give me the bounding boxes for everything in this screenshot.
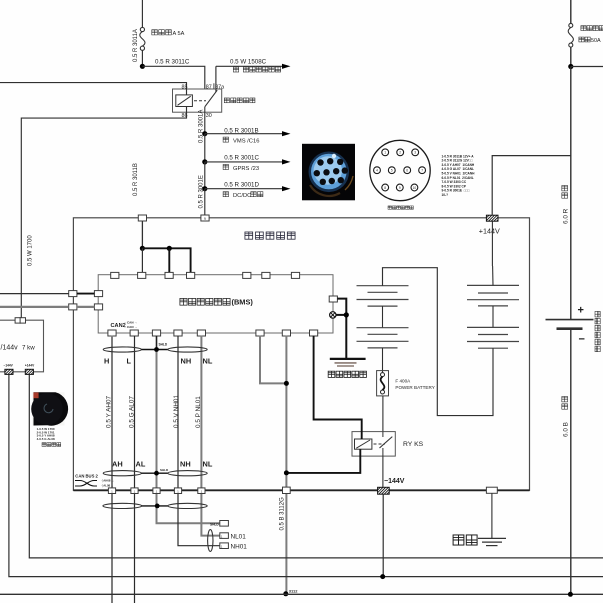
svg-text:CAN BUS 2: CAN BUS 2 — [75, 474, 98, 479]
pair lens vertical — [208, 530, 213, 552]
BMS top pin 6 — [262, 272, 270, 278]
label AH08 arrow — [100, 479, 114, 483]
relay K1 coil — [176, 95, 193, 107]
svg-text:VMS /C16: VMS /C16 — [233, 139, 259, 145]
label NH row1 — [181, 357, 192, 366]
pack wall connector NH — [174, 488, 181, 494]
svg-text:+144V: +144V — [479, 227, 500, 236]
label 3112 — [289, 588, 298, 593]
node 3001D — [202, 186, 207, 191]
wire to car ground — [491, 493, 493, 538]
BMS left pin 307 — [94, 304, 102, 310]
connector NL01 plug — [220, 533, 229, 539]
BMS bottom pin H — [108, 330, 116, 336]
relay K1 dashed link — [194, 100, 206, 102]
twisted pair lens NH-NL row3 — [168, 503, 207, 508]
wire RYKS coil feed — [314, 336, 362, 439]
wire +144V to main battery — [492, 156, 571, 216]
photo pack connector — [302, 144, 355, 201]
pack wall connector SHLD — [153, 488, 160, 494]
svg-text:7: 7 — [421, 169, 423, 173]
pin label 85 — [182, 84, 188, 90]
svg-text:←CAN →: ←CAN → — [124, 325, 137, 329]
svg-text:┤AL08 →: ┤AL08 → — [100, 484, 114, 488]
wire 0.5R3011A from top — [141, 0, 143, 27]
svg-text:┤AH08 →: ┤AH08 → — [100, 479, 114, 483]
svg-text:6: 6 — [406, 169, 408, 173]
svg-text:8: 8 — [384, 186, 386, 190]
label 至 外后视镜保险 — [233, 67, 280, 72]
svg-text:0.5 R 3001C: 0.5 R 3001C — [224, 155, 259, 162]
label NH01 — [231, 544, 248, 551]
pin label 86 — [182, 113, 188, 119]
shield link row3 — [142, 505, 168, 507]
wire 6.0R from top — [570, 0, 572, 23]
arrow 0.5R3001D to DCDC — [205, 186, 291, 191]
wire +144V to right stack top — [491, 221, 494, 285]
label 0.5 R 3011A — [133, 29, 139, 62]
svg-text:0.5 B 3112G: 0.5 B 3112G — [279, 497, 285, 531]
bold branch to BMS pins — [142, 248, 190, 272]
wire RYKS coil return — [286, 449, 360, 473]
connector S2 on pack top — [201, 215, 209, 221]
label charger -144V — [4, 364, 14, 368]
node shell — [344, 312, 349, 317]
svg-text:0.5 R 3001E: 0.5 R 3001E — [198, 175, 204, 208]
connector SHLD plug — [210, 521, 228, 527]
label 保险50A — [579, 37, 601, 44]
battery BT1 常电电池 — [546, 305, 594, 346]
label NL01 — [231, 534, 247, 541]
svg-text:0.5 W 1700: 0.5 W 1700 — [28, 235, 34, 266]
svg-text:+: + — [578, 305, 584, 317]
connector 3112G pack wall — [283, 487, 291, 493]
shield link row1 — [141, 349, 167, 351]
label CAN BUS 2 — [75, 474, 98, 479]
label 0.5 V NH01 — [173, 395, 180, 428]
battery stack right cells — [467, 285, 519, 348]
label POWER BATTERY — [395, 385, 434, 390]
wire 0.5R3001A pin30 down — [204, 112, 206, 134]
label 0.5 R 3011B — [133, 163, 139, 196]
connector wire list — [442, 154, 476, 197]
label NH row2 — [180, 459, 191, 468]
charger output wire plus — [29, 374, 603, 558]
svg-text:POWER BATTERY: POWER BATTERY — [395, 385, 434, 390]
svg-text:0.5 R 3001A: 0.5 R 3001A — [198, 110, 204, 143]
svg-text:L: L — [127, 357, 132, 366]
node J1 — [140, 64, 145, 69]
twisted pair lens NH-NL row2 — [168, 471, 207, 476]
svg-text:0.5 R 3011A: 0.5 R 3011A — [133, 29, 139, 62]
svg-text:AH: AH — [112, 459, 123, 468]
title 动力电池包 — [245, 232, 295, 239]
wire L AL07 — [134, 336, 136, 603]
title 电池管理系统(BMS) — [180, 298, 253, 307]
wire NL NL01 — [201, 336, 219, 536]
twisted pair lens H-L — [103, 347, 141, 352]
label AL — [136, 459, 146, 468]
label 0.5 R 3011C — [155, 58, 190, 65]
charger terminal +144V — [20, 369, 36, 374]
fuse 常电电池保险50A — [568, 23, 573, 47]
relay K1 充电继电器 box — [173, 89, 222, 112]
svg-text:−144V: −144V — [384, 478, 405, 485]
node J5 — [568, 64, 573, 69]
twisted pair lens AH-AL row3 — [103, 503, 142, 508]
node 3112G a — [284, 381, 289, 386]
relay pin86 wire 0.5W1700 — [21, 107, 186, 319]
label 常电电池 — [581, 26, 603, 31]
label 车体 — [453, 535, 477, 545]
pack wall connector AL — [131, 488, 138, 494]
wire 3001 segment — [204, 134, 206, 162]
pack wall connector row 293 — [69, 291, 77, 297]
branch to pin2 — [168, 248, 170, 272]
svg-text:5: 5 — [391, 169, 393, 173]
label 0.5 R 3001E — [198, 175, 204, 208]
svg-text:GPRS /23: GPRS /23 — [233, 166, 259, 172]
svg-text:SHLD: SHLD — [160, 468, 169, 472]
svg-text:7 kw: 7 kw — [22, 344, 35, 351]
label AH — [112, 459, 123, 468]
wire 0.5W1508C from pin87a with arrow — [216, 64, 291, 89]
svg-text:6.0 R: 6.0 R — [563, 207, 570, 224]
photo charger — [31, 392, 68, 425]
label +144V — [479, 227, 500, 236]
wire left stack bottom to fuse — [382, 348, 384, 372]
svg-text:NH: NH — [181, 357, 192, 366]
BMS right pin — [329, 296, 337, 302]
svg-text:0.5 W 1508C: 0.5 W 1508C — [230, 58, 267, 65]
relay RY KS box — [352, 432, 395, 457]
svg-text:10-?: 10-? — [442, 193, 449, 197]
svg-text:0.5 Y AH07: 0.5 Y AH07 — [106, 395, 113, 428]
svg-text:87a: 87a — [215, 84, 224, 90]
svg-text:1: 1 — [384, 151, 386, 155]
battery pack box 动力电池包 — [73, 218, 529, 491]
wire fuse to RYKS — [382, 396, 384, 432]
svg-text:NH: NH — [180, 459, 191, 468]
ground 电池包壳体 — [330, 359, 366, 366]
svg-text:NH01: NH01 — [231, 544, 248, 551]
wire H AH07 — [111, 336, 113, 603]
label 0.5 R 3001D — [224, 181, 259, 188]
svg-text:10: 10 — [413, 186, 417, 190]
svg-text:6.0 B: 6.0 B — [563, 420, 570, 437]
relay K1 switch — [205, 89, 217, 112]
label 6.0 B 无号 — [562, 397, 570, 437]
label F 400A — [395, 379, 411, 384]
pack wall connector AH — [108, 488, 115, 494]
node J7 — [167, 246, 172, 251]
label RY KS — [403, 441, 424, 448]
fuse 充电机A 5A — [140, 27, 145, 50]
svg-text:/144v: /144v — [1, 344, 19, 351]
label AL08 arrow — [100, 484, 114, 488]
connector S1 on pack top — [138, 215, 146, 221]
wire fuse to node — [570, 47, 572, 66]
wire charger to BMS 293 — [0, 293, 94, 295]
wire RYKS switch to -144V — [382, 456, 384, 487]
svg-text:9: 9 — [399, 186, 401, 190]
svg-text:0.5 R 3001B: 0.5 R 3001B — [224, 127, 258, 134]
BMS top pin 5 — [243, 272, 251, 278]
terminal +144V — [480, 215, 502, 221]
wire to node J1 — [141, 50, 143, 66]
charger box /144v — [0, 320, 44, 372]
label 充电机A 5A — [152, 30, 185, 38]
svg-text:9: 9 — [204, 217, 206, 221]
svg-text:50A: 50A — [591, 38, 601, 44]
svg-text:2: 2 — [399, 151, 401, 155]
wire -144V down — [382, 494, 384, 576]
twisted pair lens NH-NL — [168, 347, 207, 352]
node SHLD row2 — [154, 471, 159, 476]
label 0.5 Y AH07 — [106, 395, 113, 428]
BMS bottom pin p6 — [256, 330, 264, 336]
arrow 0.5R3001B to VMS — [205, 131, 291, 136]
label 0.5 R 3001C — [224, 155, 259, 162]
label charger +144V — [25, 364, 35, 368]
label 接动力电池包 — [388, 206, 413, 209]
wire 3011B S1 to node — [141, 221, 143, 248]
svg-text:4: 4 — [376, 169, 378, 173]
connector face diagram — [370, 140, 430, 200]
wire 0.5R3001E segment — [204, 162, 206, 189]
BMS top pin 1 — [111, 272, 119, 278]
label 常电电池12V30Ah — [595, 311, 600, 351]
label SHLD row2 — [160, 468, 169, 472]
wire pin6 drop — [260, 336, 286, 384]
svg-text:AL: AL — [136, 459, 146, 468]
wire BMS pin to shell ground — [337, 299, 346, 359]
battery stack left cells — [357, 286, 409, 348]
svg-text:85: 85 — [182, 84, 188, 90]
wire 6.0B down — [570, 329, 572, 595]
svg-text:NL01: NL01 — [231, 534, 247, 541]
relay pin85 wire from left — [0, 83, 187, 95]
node 3001B — [202, 131, 207, 136]
charger top connector — [15, 318, 25, 323]
branch to pin1 — [141, 248, 143, 272]
label H — [104, 357, 109, 366]
svg-text:30: 30 — [206, 113, 212, 119]
label /144v 7 kw — [1, 344, 36, 351]
label 0.5 R 3001B — [224, 127, 258, 134]
svg-text:(BMS): (BMS) — [232, 298, 254, 307]
label SHLD row1 — [159, 342, 168, 346]
ground 车体 — [478, 538, 506, 545]
svg-text:0.5 R 3011C: 0.5 R 3011C — [155, 58, 190, 65]
BMS top pin 7 — [291, 272, 299, 278]
label 接充电机 — [42, 443, 61, 447]
relay RY KS coil — [355, 439, 372, 449]
BMS bottom pin NL — [197, 330, 205, 336]
pin label 87 — [206, 84, 212, 90]
BMS bottom pin NH — [174, 330, 182, 336]
svg-text:4-0.5 G AL08: 4-0.5 G AL08 — [37, 437, 55, 441]
wire left stack top to right stack bottom — [383, 268, 494, 416]
BMS chassis bolt — [330, 312, 336, 318]
wire 3001E to pack — [204, 189, 206, 215]
BMS top pin 3 — [165, 272, 173, 278]
label 电池包壳体 — [328, 371, 366, 377]
bus 3112 bottom — [0, 593, 603, 595]
svg-text:A 5A: A 5A — [173, 31, 185, 37]
label NL row2 — [203, 459, 213, 468]
BMS bottom pin SHLD — [152, 330, 160, 336]
twisted pair lens AH-AL row2 — [103, 471, 141, 476]
relay RY KS dashed link — [374, 443, 386, 445]
node 3001C — [202, 159, 207, 164]
label 0.5 B 3112G — [279, 497, 285, 531]
BMS left pin 293 — [94, 291, 102, 297]
BMS box 电池管理系统 — [98, 275, 333, 333]
svg-text:0.5 G AL07: 0.5 G AL07 — [128, 396, 135, 428]
svg-text:3112: 3112 — [289, 588, 298, 593]
node J6 — [140, 246, 145, 251]
node battery bus — [568, 592, 573, 597]
wire NH NH01 — [178, 336, 220, 546]
svg-text:0.5 V NH01: 0.5 V NH01 — [173, 395, 180, 428]
label 至 VMS /C16 — [223, 137, 259, 144]
node -144V bus — [380, 574, 385, 579]
charger terminal -144V — [0, 369, 16, 374]
label 6.0 R 无号 — [562, 186, 570, 224]
shield link row2 — [141, 472, 167, 474]
label 充电继电器 — [224, 98, 255, 103]
label 0.5 G AL07 — [128, 396, 135, 428]
pack wall connector row 307 — [69, 304, 77, 310]
label 0.5 R 3001A — [198, 110, 204, 143]
wire 0.5R3011C to relay pin87 — [142, 66, 204, 89]
wire SHLD upper — [156, 336, 158, 350]
svg-text:3: 3 — [414, 151, 416, 155]
label NL row1 — [203, 357, 213, 366]
label CAN2 — [111, 321, 138, 330]
wire charger to BMS 307 — [0, 306, 94, 308]
svg-text:+144V: +144V — [25, 364, 35, 368]
wire bolt to ground — [336, 314, 346, 316]
node 3112G bus — [283, 591, 288, 596]
BMS bottom pin p8 — [310, 330, 318, 336]
charger output wire minus — [9, 374, 603, 576]
label L — [127, 357, 132, 366]
label 0.5 W 1508C — [230, 58, 267, 65]
svg-text:−144V: −144V — [4, 364, 14, 368]
svg-text:0.5 R 3001D: 0.5 R 3001D — [224, 181, 259, 188]
relay RY KS switch — [380, 432, 393, 457]
label 0.5 W 1700 — [28, 235, 34, 266]
charger pin list — [37, 427, 55, 441]
label 至 GPRS /23 — [223, 164, 259, 171]
label 至 DC/DC使能 — [223, 192, 263, 199]
label 0.5 P NL01 — [195, 396, 202, 428]
wire 6.0R down to battery — [570, 67, 572, 320]
svg-text:0.5 P NL01: 0.5 P NL01 — [195, 396, 202, 428]
BMS bottom pin L — [130, 330, 138, 336]
BMS bottom pin p7 — [282, 330, 290, 336]
node SHLD row3 — [155, 504, 160, 509]
connector car body bond — [486, 487, 497, 493]
pin label 87a — [214, 83, 224, 90]
arrow 0.5R3001C to GPRS — [205, 159, 291, 164]
svg-text:H: H — [104, 357, 109, 366]
svg-text:NL: NL — [203, 357, 213, 366]
CAN BUS 2 twisted icon — [75, 481, 97, 487]
svg-text:SHLD: SHLD — [210, 522, 219, 526]
svg-text:SHLD: SHLD — [159, 342, 168, 346]
connector NH01 plug — [220, 543, 229, 549]
svg-text:DC/DC: DC/DC — [233, 193, 251, 199]
pin label 30 — [206, 113, 212, 119]
label -144V — [384, 478, 405, 485]
svg-text:−: − — [579, 334, 585, 346]
BMS top pin 4 — [187, 272, 195, 278]
BMS top pin 2 — [138, 272, 146, 278]
svg-text:0.5 R 3011B: 0.5 R 3011B — [133, 163, 139, 196]
pack bottom edge bold — [73, 489, 529, 491]
svg-text:87: 87 — [206, 84, 212, 90]
node 3112G b — [284, 470, 289, 475]
wire SHLD lower — [157, 350, 220, 524]
pack wall connector NL — [198, 488, 205, 494]
svg-text:F 400A: F 400A — [395, 379, 411, 384]
fuse F 400A — [377, 371, 389, 396]
node SHLD row1 — [154, 347, 159, 352]
wire 0.5B3112G — [285, 336, 287, 593]
wire right to edge — [571, 66, 603, 68]
svg-text:RY KS: RY KS — [403, 441, 424, 448]
svg-text:NL: NL — [203, 459, 213, 468]
terminal -144V — [371, 487, 394, 494]
